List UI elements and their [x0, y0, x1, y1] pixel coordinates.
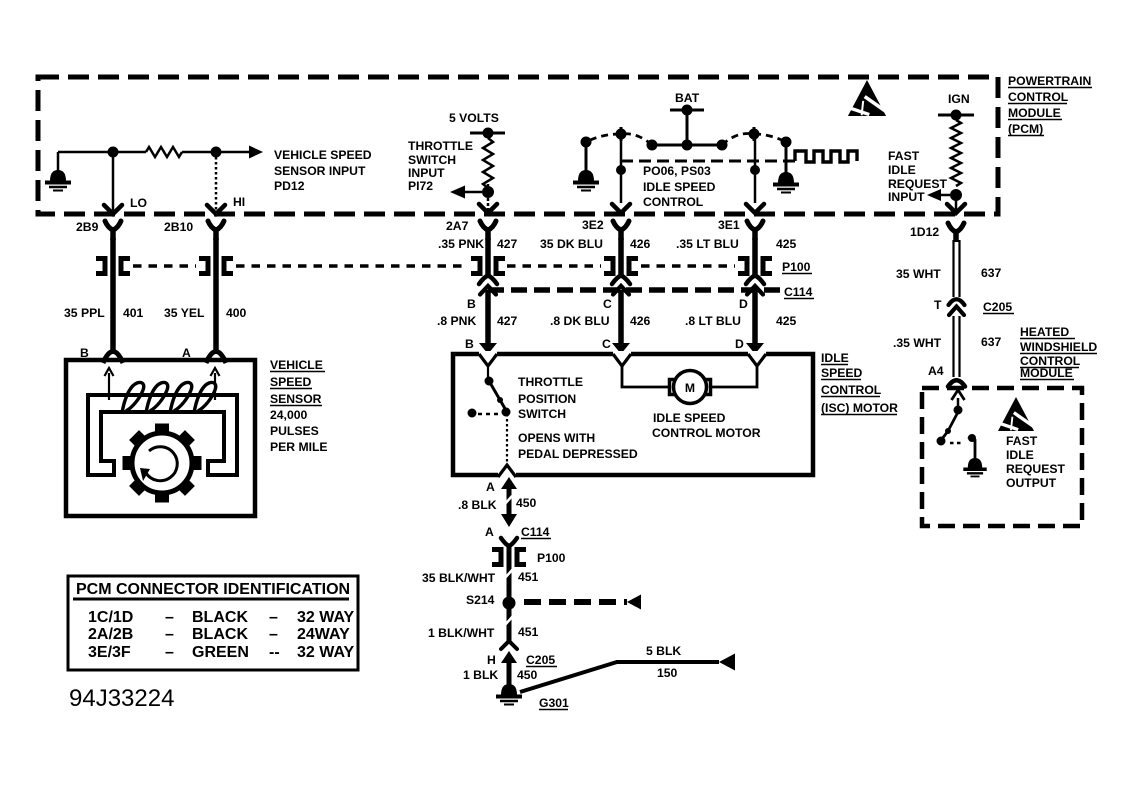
svg-text:450: 450	[517, 668, 538, 682]
connector P100 (lower)	[492, 550, 501, 565]
switch pivot node	[485, 377, 494, 386]
square wave signal symbol	[795, 151, 857, 162]
svg-text:IDLE: IDLE	[821, 351, 849, 365]
svg-text:VEHICLE: VEHICLE	[270, 358, 323, 372]
svg-text:PULSES: PULSES	[270, 424, 319, 438]
svg-text:C: C	[602, 337, 611, 351]
VSS pin A arrow up	[214, 373, 216, 400]
wire ground to node	[58, 151, 146, 154]
left driver to ground	[585, 142, 588, 172]
vehicle speed sensor box	[66, 360, 255, 516]
svg-text:3E/3F: 3E/3F	[88, 644, 131, 661]
ground left driver	[578, 170, 594, 181]
svg-text:2A7: 2A7	[446, 219, 469, 233]
inline connector at 2B9 wire	[96, 259, 105, 274]
svg-text:CONTROL: CONTROL	[643, 195, 704, 209]
VSS pickup coil	[122, 382, 216, 413]
switch node (fast idle output)	[954, 406, 963, 415]
node 5V	[483, 128, 494, 139]
svg-text:REQUEST: REQUEST	[888, 177, 947, 191]
svg-text:–: –	[269, 609, 278, 626]
ISC motor	[674, 371, 707, 404]
svg-text:FAST: FAST	[1006, 434, 1038, 448]
svg-text:A: A	[486, 480, 495, 494]
svg-text:INPUT: INPUT	[888, 190, 925, 204]
svg-text:PO06, PS03: PO06, PS03	[643, 164, 711, 178]
dashed link to left driver	[586, 134, 620, 142]
arrow down to C114	[501, 514, 517, 527]
connector P100 at 3E2 wire	[604, 259, 613, 274]
arrow 3E1 into ISC box	[746, 343, 764, 354]
actuator dashes (fast idle)	[950, 442, 963, 445]
wire LO down	[112, 157, 115, 212]
svg-text:PER MILE: PER MILE	[270, 440, 328, 454]
svg-text:.8 BLK: .8 BLK	[458, 498, 497, 512]
arrow LO exits PCM	[104, 205, 122, 214]
svg-text:CONTROL MOTOR: CONTROL MOTOR	[652, 426, 761, 440]
arrow 2A7 into ISC box	[479, 343, 497, 354]
svg-text:WINDSHIELD: WINDSHIELD	[1020, 340, 1097, 354]
svg-text:C114: C114	[521, 525, 550, 539]
svg-text:C205: C205	[983, 300, 1012, 314]
fixed contact post	[968, 437, 975, 459]
svg-text:35 PPL: 35 PPL	[64, 306, 105, 320]
connector row P100 dashed	[507, 264, 601, 268]
C205 chevron	[501, 641, 517, 649]
C205 fork (right)	[949, 299, 965, 305]
svg-text:1C/1D: 1C/1D	[88, 609, 133, 626]
wire kink slash	[504, 496, 512, 505]
wire 2A7 upper segment	[485, 238, 491, 277]
node LO junction	[108, 147, 119, 158]
svg-text:150: 150	[657, 666, 678, 680]
svg-text:C205: C205	[526, 653, 555, 667]
switch output dotted wire	[506, 414, 508, 463]
svg-text:637: 637	[981, 266, 1002, 280]
svg-text:2A/2B: 2A/2B	[88, 626, 133, 643]
node 3E1 driver	[749, 129, 760, 140]
svg-text:3E2: 3E2	[582, 218, 604, 232]
svg-text:H: H	[487, 653, 496, 667]
svg-text:C: C	[603, 297, 612, 311]
ESD symbol (PCM)	[848, 80, 886, 116]
arrow up into C205	[501, 651, 517, 663]
node fast idle input	[950, 189, 962, 201]
svg-text:PI72: PI72	[408, 179, 433, 193]
resistor (VSS bias)	[146, 147, 182, 157]
svg-text:IDLE SPEED: IDLE SPEED	[643, 180, 716, 194]
connector C114 at 3E2 wire	[612, 276, 630, 285]
svg-text:427: 427	[497, 237, 518, 251]
VSS pin B arrow up	[108, 373, 110, 400]
node on 3E2 wire	[616, 165, 626, 175]
svg-text:425: 425	[776, 237, 797, 251]
svg-text:SENSOR INPUT: SENSOR INPUT	[274, 164, 366, 178]
svg-text:M: M	[685, 381, 695, 395]
connector C114 at 2A7 wire	[479, 276, 497, 285]
S214 dashed branch	[524, 599, 627, 605]
VSS rotation arrow	[146, 447, 177, 481]
svg-text:SENSOR: SENSOR	[270, 392, 322, 406]
exit notch bottom	[498, 472, 516, 478]
connector 1D12	[948, 223, 964, 232]
node throttle switch input	[482, 186, 494, 198]
svg-text:–: –	[165, 644, 174, 661]
node on 3E1 wire	[750, 165, 760, 175]
VSS reluctor gear	[132, 433, 192, 493]
connector 3E2	[613, 221, 629, 230]
arrow left FAST IDLE REQUEST INPUT	[938, 194, 950, 197]
svg-text:SPEED: SPEED	[270, 375, 312, 389]
dashed link to right driver	[754, 134, 786, 142]
svg-text:35 BLK/WHT: 35 BLK/WHT	[422, 571, 496, 585]
ESD symbol (heated windshield module)	[998, 397, 1034, 431]
blade dot (fast idle)	[945, 428, 951, 434]
svg-text:–: –	[165, 609, 174, 626]
svg-text:INPUT: INPUT	[408, 166, 445, 180]
node HI junction	[211, 147, 222, 158]
fast idle request output dashed box	[922, 388, 1082, 526]
node bus right	[717, 140, 728, 151]
svg-text:.35 LT BLU: .35 LT BLU	[676, 237, 739, 251]
svg-text:1D12: 1D12	[910, 225, 939, 239]
svg-text:.8 DK BLU: .8 DK BLU	[550, 314, 610, 328]
arrow 3E2 into ISC box	[612, 343, 630, 354]
svg-text:SWITCH: SWITCH	[408, 153, 456, 167]
node BAT	[682, 105, 693, 116]
svg-text:427: 427	[497, 314, 518, 328]
svg-text:426: 426	[630, 314, 651, 328]
svg-text:MODULE: MODULE	[1008, 106, 1061, 120]
wire 2A7 lower segment	[485, 290, 491, 345]
node bus left	[647, 140, 658, 151]
switch blade (fast idle)	[942, 412, 958, 439]
dashed link to 3E2 driver	[622, 134, 652, 145]
svg-text:GREEN: GREEN	[192, 644, 249, 661]
svg-text:PD12: PD12	[274, 179, 305, 193]
dashed internal bus	[621, 160, 795, 163]
post contact dot	[968, 434, 976, 442]
connector 2A7	[480, 221, 496, 230]
svg-text:.35 WHT: .35 WHT	[893, 336, 942, 350]
VSS terminal B cap	[100, 356, 126, 365]
connector 2B10	[208, 221, 224, 230]
ground right driver	[778, 172, 794, 183]
svg-text:24WAY: 24WAY	[297, 626, 350, 643]
PCM module dashed outline box	[38, 77, 998, 214]
svg-text:BLACK: BLACK	[192, 626, 248, 643]
arrow 3E2 exits PCM	[612, 204, 630, 213]
blade dot	[497, 397, 503, 403]
ground G301	[501, 684, 517, 695]
dashed link to 3E1 driver	[722, 133, 754, 145]
entry notch at x=488	[479, 351, 497, 357]
svg-text:A: A	[485, 525, 494, 539]
wire 3E2 down	[620, 134, 623, 203]
svg-text:IDLE SPEED: IDLE SPEED	[653, 411, 726, 425]
ground (fast idle output)	[968, 458, 982, 468]
svg-text:THROTTLE: THROTTLE	[408, 139, 473, 153]
ground (VSS input pull)	[57, 152, 60, 171]
svg-text:PCM CONNECTOR IDENTIFICATION: PCM CONNECTOR IDENTIFICATION	[76, 581, 350, 598]
entry notch at x=622	[613, 351, 631, 357]
svg-text:2B9: 2B9	[76, 220, 99, 234]
svg-text:451: 451	[518, 570, 539, 584]
wire to S214	[507, 564, 512, 597]
throttle position switch / ISC motor box	[453, 354, 813, 475]
svg-text:(ISC) MOTOR: (ISC) MOTOR	[821, 401, 898, 415]
node right driver	[781, 137, 792, 148]
wire 3E2 upper segment	[618, 238, 624, 277]
arrow left THROTTLE SWITCH INPUT	[462, 191, 482, 194]
connector 2B9	[105, 221, 121, 230]
svg-text:P100: P100	[782, 260, 811, 274]
svg-text:HI: HI	[233, 195, 245, 209]
arrow up inside box	[957, 398, 960, 409]
svg-text:3E1: 3E1	[718, 218, 740, 232]
svg-text:32 WAY: 32 WAY	[297, 644, 355, 661]
actuator dashes	[478, 413, 499, 416]
svg-text:G301: G301	[539, 696, 569, 710]
wire 3E1 lower segment	[752, 290, 758, 345]
wire 3E2 lower segment	[618, 290, 624, 345]
svg-text:CONTROL: CONTROL	[1008, 90, 1069, 104]
IGN supply bar	[938, 114, 974, 117]
node bus mid	[682, 140, 693, 151]
svg-text:B: B	[467, 297, 476, 311]
svg-text:BAT: BAT	[675, 91, 700, 105]
5V supply bar	[470, 132, 505, 135]
svg-text:PEDAL DEPRESSED: PEDAL DEPRESSED	[518, 447, 638, 461]
contact (fast idle)	[937, 437, 946, 446]
svg-text:OPENS WITH: OPENS WITH	[518, 431, 595, 445]
svg-text:IDLE: IDLE	[1006, 448, 1034, 462]
svg-text:–: –	[269, 626, 278, 643]
node left driver	[581, 137, 592, 148]
svg-text:D: D	[735, 337, 744, 351]
svg-text:–: –	[165, 626, 174, 643]
wire BAT horizontal bus	[651, 144, 723, 147]
VSS terminal A cap	[203, 356, 229, 365]
svg-text:HEATED: HEATED	[1020, 325, 1069, 339]
wire 2B9 (35 PPL 401)	[110, 238, 116, 350]
arrow up into ISC box	[501, 477, 517, 489]
arrow 3E1 exits PCM	[746, 204, 764, 213]
svg-text:OUTPUT: OUTPUT	[1006, 476, 1057, 490]
wire BAT down	[686, 110, 689, 145]
svg-text:.8 PNK: .8 PNK	[437, 314, 476, 328]
node 3E2 driver	[616, 129, 627, 140]
svg-text:450: 450	[516, 496, 537, 510]
svg-text:D: D	[739, 297, 748, 311]
svg-text:--: --	[269, 644, 280, 661]
svg-text:.35 PNK: .35 PNK	[438, 237, 484, 251]
wire 3E1 upper segment	[752, 238, 758, 277]
svg-text:2B10: 2B10	[164, 220, 193, 234]
wire 1D12 double line	[952, 240, 954, 297]
svg-text:SPEED: SPEED	[821, 366, 863, 380]
svg-text:CONTROL: CONTROL	[821, 383, 882, 397]
entry notch at x=757	[748, 351, 766, 357]
connector row C114 dashed	[488, 287, 780, 293]
wire 2B10 (35 YEL 400)	[213, 238, 219, 350]
svg-text:B: B	[465, 337, 474, 351]
connector P100 at 3E1 wire	[738, 259, 747, 274]
PCM connector identification table	[68, 576, 358, 670]
svg-text:5 BLK: 5 BLK	[646, 644, 681, 658]
svg-text:VEHICLE SPEED: VEHICLE SPEED	[274, 148, 372, 162]
wire 5V node down	[487, 198, 490, 211]
svg-text:C114: C114	[784, 285, 813, 299]
arrow 2A7 exits PCM	[479, 204, 497, 213]
switch blade	[489, 381, 507, 412]
resistor (throttle switch pull-up)	[483, 138, 493, 188]
svg-text:LO: LO	[130, 196, 147, 210]
connector row P100-left dashed	[133, 264, 196, 268]
svg-text:425: 425	[776, 314, 797, 328]
svg-text:35 YEL: 35 YEL	[164, 306, 205, 320]
arrow 1D12 exits PCM	[947, 204, 965, 213]
A4 fork	[948, 380, 965, 386]
wire S214 down	[507, 609, 512, 641]
svg-text:.8 LT BLU: .8 LT BLU	[685, 314, 741, 328]
svg-text:94J33224: 94J33224	[69, 685, 174, 712]
wire 5 BLK 150	[520, 662, 719, 692]
connector C114 at 3E1 wire	[746, 276, 764, 285]
svg-text:P100: P100	[537, 551, 566, 565]
wire to A4 double line	[952, 316, 954, 377]
svg-text:BLACK: BLACK	[192, 609, 248, 626]
wire D to motor	[712, 366, 757, 387]
svg-text:24,000: 24,000	[270, 408, 307, 422]
resistor (fast idle pull-up)	[951, 120, 961, 186]
svg-text:637: 637	[981, 335, 1002, 349]
svg-text:426: 426	[630, 237, 651, 251]
arrow HI exits PCM	[207, 205, 225, 214]
svg-text:A4: A4	[928, 364, 944, 378]
svg-text:T: T	[934, 298, 942, 312]
right driver to ground	[785, 142, 788, 174]
node IGN	[951, 110, 962, 121]
svg-text:32 WAY: 32 WAY	[297, 609, 355, 626]
wire resistor to node	[182, 151, 250, 154]
svg-text:1 BLK: 1 BLK	[463, 668, 498, 682]
svg-text:1 BLK/WHT: 1 BLK/WHT	[428, 626, 495, 640]
wire HI down (dotted)	[215, 157, 218, 212]
svg-text:SWITCH: SWITCH	[518, 407, 566, 421]
svg-text:FAST: FAST	[888, 149, 920, 163]
blade contact	[502, 408, 511, 417]
svg-text:35 DK BLU: 35 DK BLU	[540, 237, 603, 251]
open contact	[468, 409, 477, 418]
svg-text:401: 401	[123, 306, 144, 320]
svg-text:400: 400	[226, 306, 247, 320]
svg-text:IDLE: IDLE	[888, 163, 916, 177]
svg-text:S214: S214	[466, 593, 495, 607]
connector P100 at 2A7 wire	[471, 259, 480, 274]
wire IGN node down	[955, 199, 958, 211]
connector 3E1	[747, 221, 763, 230]
switch wire from B	[487, 366, 489, 379]
wire C to motor	[622, 366, 668, 387]
svg-text:POWERTRAIN: POWERTRAIN	[1008, 74, 1091, 88]
svg-text:REQUEST: REQUEST	[1006, 462, 1065, 476]
svg-text:451: 451	[518, 625, 539, 639]
svg-text:5 VOLTS: 5 VOLTS	[449, 111, 499, 125]
inline connector at 2B10 wire	[199, 259, 208, 274]
wire 3E1 down	[754, 134, 757, 203]
BAT supply bar	[670, 109, 704, 112]
svg-text:THROTTLE: THROTTLE	[518, 375, 583, 389]
VSS magnetic core	[88, 395, 237, 475]
svg-text:IGN: IGN	[948, 92, 970, 106]
splice S214	[503, 597, 516, 610]
svg-text:(PCM): (PCM)	[1008, 122, 1043, 136]
arrow to VEHICLE SPEED SENSOR INPUT	[249, 146, 263, 159]
svg-text:MODULE: MODULE	[1020, 366, 1073, 380]
C114 lower fork	[501, 538, 517, 546]
svg-text:35 WHT: 35 WHT	[896, 267, 941, 281]
svg-text:POSITION: POSITION	[518, 392, 576, 406]
